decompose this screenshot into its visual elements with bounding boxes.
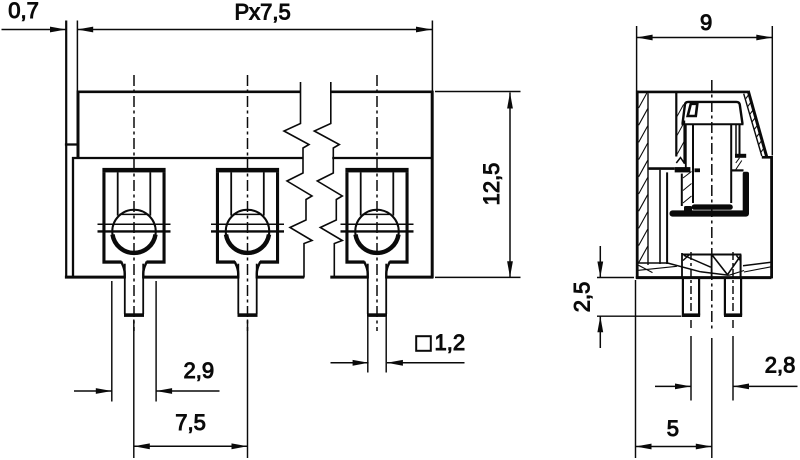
dimension 2,8: dimension line and arrows [655, 384, 798, 390]
terminal clamp 1: clamp top chord [119, 213, 148, 215]
clamp step block on bar [684, 206, 692, 214]
base relief: right of box slant [729, 271, 744, 276]
clamp bottom thick bar [670, 210, 750, 216]
dimension square 1,2: extension lines [368, 317, 386, 373]
housing side view: bottom edge [636, 276, 772, 279]
svg-text:12,5: 12,5 [479, 163, 504, 206]
dimension 9: dimension line and arrows [637, 35, 773, 41]
screw shank bottom [692, 204, 733, 209]
dimension 2,9: dimension line and arrows [74, 388, 220, 394]
side view pin 1 center line [690, 252, 692, 330]
svg-text:7,5: 7,5 [175, 410, 206, 435]
base anchor box middle wall [711, 255, 713, 278]
solder pin 2: left taper [235, 262, 239, 279]
wire chamber wall line a [659, 170, 661, 264]
terminal clamp 2: wire clamp line lower [211, 230, 284, 232]
solder pin 3: pin tip [367, 313, 387, 317]
base anchor box left wall [681, 253, 683, 277]
dimension 5: extension lines [636, 280, 712, 458]
side view pin 1 sides [683, 279, 699, 316]
dimension 2,5: extension lines [597, 278, 682, 317]
terminal clamp 3: cage left wall [345, 172, 348, 260]
terminal clamp 2: cage right wall [276, 172, 279, 260]
plastic rib left of screw: left line [675, 93, 677, 157]
terminal clamp 2: screw hole circle [226, 210, 270, 254]
housing side view: right step under slant [762, 156, 773, 159]
break line left zigzag [284, 82, 312, 278]
terminal clamp 3: thick lower arc of screw hole [356, 235, 399, 253]
housing side view: left wall hatching [639, 92, 648, 263]
terminal clamp 1: metal cage top bar [102, 168, 165, 173]
terminal clamp 2: wire funnel walls [231, 172, 264, 215]
svg-text:2,9: 2,9 [184, 358, 215, 383]
terminal clamp 2: wire clamp line upper [211, 223, 284, 225]
solder pin 1: left taper [121, 262, 125, 279]
housing front view: bottom edge [65, 276, 433, 279]
housing front view: left end-wall face edge [77, 91, 80, 159]
svg-text:2,8: 2,8 [765, 353, 796, 378]
dimension 9: extension lines [637, 26, 773, 156]
screw head outline [683, 102, 743, 124]
solder pin 2: pin sides [238, 264, 256, 314]
terminal clamp 3: screw hole circle [355, 210, 399, 254]
housing side view: top edge [636, 91, 748, 94]
base anchor box diagonals [683, 255, 741, 275]
terminal clamp 3: metal cage top bar [345, 168, 408, 173]
base relief: right slant [744, 267, 771, 272]
plastic rib: bottom taper [676, 158, 684, 164]
clamp top stub left of shank [695, 168, 701, 172]
housing front view: recess step line [72, 157, 432, 159]
plastic rib left of screw: right line [683, 121, 685, 164]
dimension Px7,5: dimension line and arrow [77, 27, 432, 33]
terminal clamp 1: screw hole circle [112, 210, 156, 254]
dimension 2,5: dimension line and arrows [597, 246, 603, 348]
base relief: left horizontal [639, 262, 668, 264]
solder pin 2: right taper [257, 262, 261, 279]
dimension 2,9: extension lines [112, 281, 156, 402]
dimension Px7,5: extension line left [76, 21, 78, 91]
base relief: left slant down [668, 263, 701, 272]
solder pin 3: right taper [386, 262, 390, 279]
hatch marks under right foot [736, 158, 742, 170]
terminal clamp 3: wire clamp line upper [341, 223, 414, 225]
housing front view: left partition outer edge + 0,7 extension [65, 21, 67, 279]
dimension Px7,5: extension line right [431, 21, 433, 91]
dimension square 1,2: square symbol [416, 336, 431, 351]
base relief: left wall corner slant [639, 265, 653, 272]
housing front view: top edge [77, 91, 434, 94]
solder pin 1: pin sides [125, 264, 143, 314]
side view pin 2 sides [725, 279, 741, 316]
dimension 0,7: dimension line and arrows [2, 27, 94, 33]
dimension 5: dimension line and arrows [636, 444, 712, 450]
terminal clamp 3: cage right wall [406, 172, 409, 260]
terminal clamp 1: wire clamp line lower [98, 230, 171, 232]
cage wall left of shank [685, 124, 687, 168]
cage strip below bar: left line [681, 174, 683, 206]
dimension 2,8: extension lines [691, 336, 733, 401]
svg-text:0,7: 0,7 [8, 0, 39, 23]
housing side view: left edge [636, 91, 639, 279]
terminal clamp 3: wire clamp line lower [341, 230, 414, 232]
terminal clamp 2: clamp top chord [233, 213, 262, 215]
cage strip below bar hatching [683, 172, 692, 204]
terminal clamp 2: cage bottom bar [216, 260, 279, 263]
housing front view: left step at partition [65, 143, 79, 145]
terminal clamp 2: thick lower arc of screw hole [226, 235, 269, 253]
housing front view: left inner partition line [72, 157, 74, 278]
screw shank right edge [730, 124, 732, 203]
svg-text:5: 5 [667, 416, 679, 441]
housing side view: right edge [770, 156, 773, 278]
center line of terminal 3 [376, 75, 378, 331]
svg-text:1,2: 1,2 [435, 330, 466, 355]
terminal clamp 1: cage bottom bar [102, 260, 165, 263]
terminal clamp 1: wire clamp line upper [98, 223, 171, 225]
base anchor box top line [682, 254, 741, 256]
svg-text:9: 9 [700, 10, 712, 35]
clamp right thick bar [743, 172, 749, 214]
solder pin 2: pin tip [238, 313, 258, 317]
center line of terminal 1 [133, 75, 135, 331]
side view pin 2 center line [732, 252, 734, 330]
solder pin 3: pin sides [368, 264, 386, 314]
wire chamber wall line b [666, 172, 668, 264]
screw shank left edge [692, 124, 694, 203]
clamp cage top-left thick bar [675, 167, 691, 172]
svg-text:2,5: 2,5 [570, 282, 595, 313]
housing side view: right slanted wall outer edge [748, 91, 767, 157]
shelf line left of clamp bar [649, 167, 675, 170]
housing side view: right slanted wall inner edge [744, 94, 762, 156]
solder pin 1: right taper [143, 262, 147, 279]
side view center line [711, 80, 713, 332]
housing front view: right edge [431, 91, 434, 279]
dimension 12,5: dimension line and arrows [507, 93, 513, 278]
base anchor box right wall [740, 255, 742, 278]
break line right zigzag [314, 82, 342, 278]
terminal clamp 1: wire funnel walls [118, 172, 151, 215]
dimension 7,5: extension lines [134, 320, 248, 459]
terminal clamp 3: clamp top chord [362, 213, 391, 215]
housing side view: left wall inner line [647, 93, 649, 265]
terminal clamp 3: cage bottom bar [345, 260, 408, 263]
clamp top line behind screw (right) [731, 169, 743, 171]
terminal clamp 1: cage right wall [163, 172, 166, 260]
cage right wall outer line [739, 124, 741, 154]
terminal clamp 2: metal cage top bar [216, 168, 279, 173]
base relief: right horizontal [743, 262, 771, 266]
screw slot [688, 104, 698, 116]
terminal clamp 2: cage left wall [216, 172, 219, 260]
solder pin 3: left taper [364, 262, 368, 279]
solder pin 1: pin tip [124, 313, 144, 317]
terminal clamp 1: cage left wall [102, 172, 105, 260]
dimension 12,5: extension lines [435, 92, 521, 278]
dimension square 1,2: dimension line and arrows [331, 360, 465, 366]
side view pin 1 tip [682, 313, 700, 317]
cage right wall inner line [735, 124, 737, 154]
side view pin 2 tip [724, 313, 742, 317]
terminal clamp 3: wire funnel walls [361, 172, 394, 215]
screw head bottom line [682, 123, 744, 125]
center line of terminal 2 [247, 75, 249, 331]
svg-text:Px7,5: Px7,5 [235, 0, 291, 24]
terminal clamp 1: thick lower arc of screw hole [113, 235, 156, 253]
cage right wall foot [735, 154, 746, 158]
base relief: left inner slant [639, 266, 677, 270]
dimension 7,5: dimension line and arrows [134, 443, 248, 449]
